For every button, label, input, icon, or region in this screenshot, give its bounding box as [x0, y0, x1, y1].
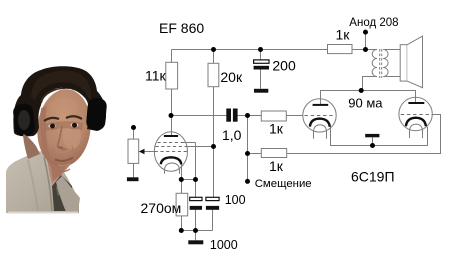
- svg-text:270ом: 270ом: [141, 200, 182, 216]
- svg-text:11к: 11к: [145, 68, 167, 84]
- svg-text:1к: 1к: [269, 121, 284, 137]
- svg-text:Анод 208: Анод 208: [349, 17, 398, 29]
- svg-text:6С19П: 6С19П: [351, 169, 395, 185]
- svg-text:1,0: 1,0: [222, 127, 242, 143]
- svg-text:90 ма: 90 ма: [348, 96, 383, 111]
- svg-text:200: 200: [272, 58, 296, 74]
- svg-text:EF 860: EF 860: [159, 20, 204, 36]
- svg-text:1000: 1000: [210, 238, 238, 252]
- svg-text:100: 100: [225, 193, 246, 207]
- svg-text:1к: 1к: [269, 158, 284, 174]
- svg-text:Смещение: Смещение: [255, 178, 312, 190]
- svg-text:20к: 20к: [220, 69, 243, 85]
- svg-text:1к: 1к: [336, 26, 351, 42]
